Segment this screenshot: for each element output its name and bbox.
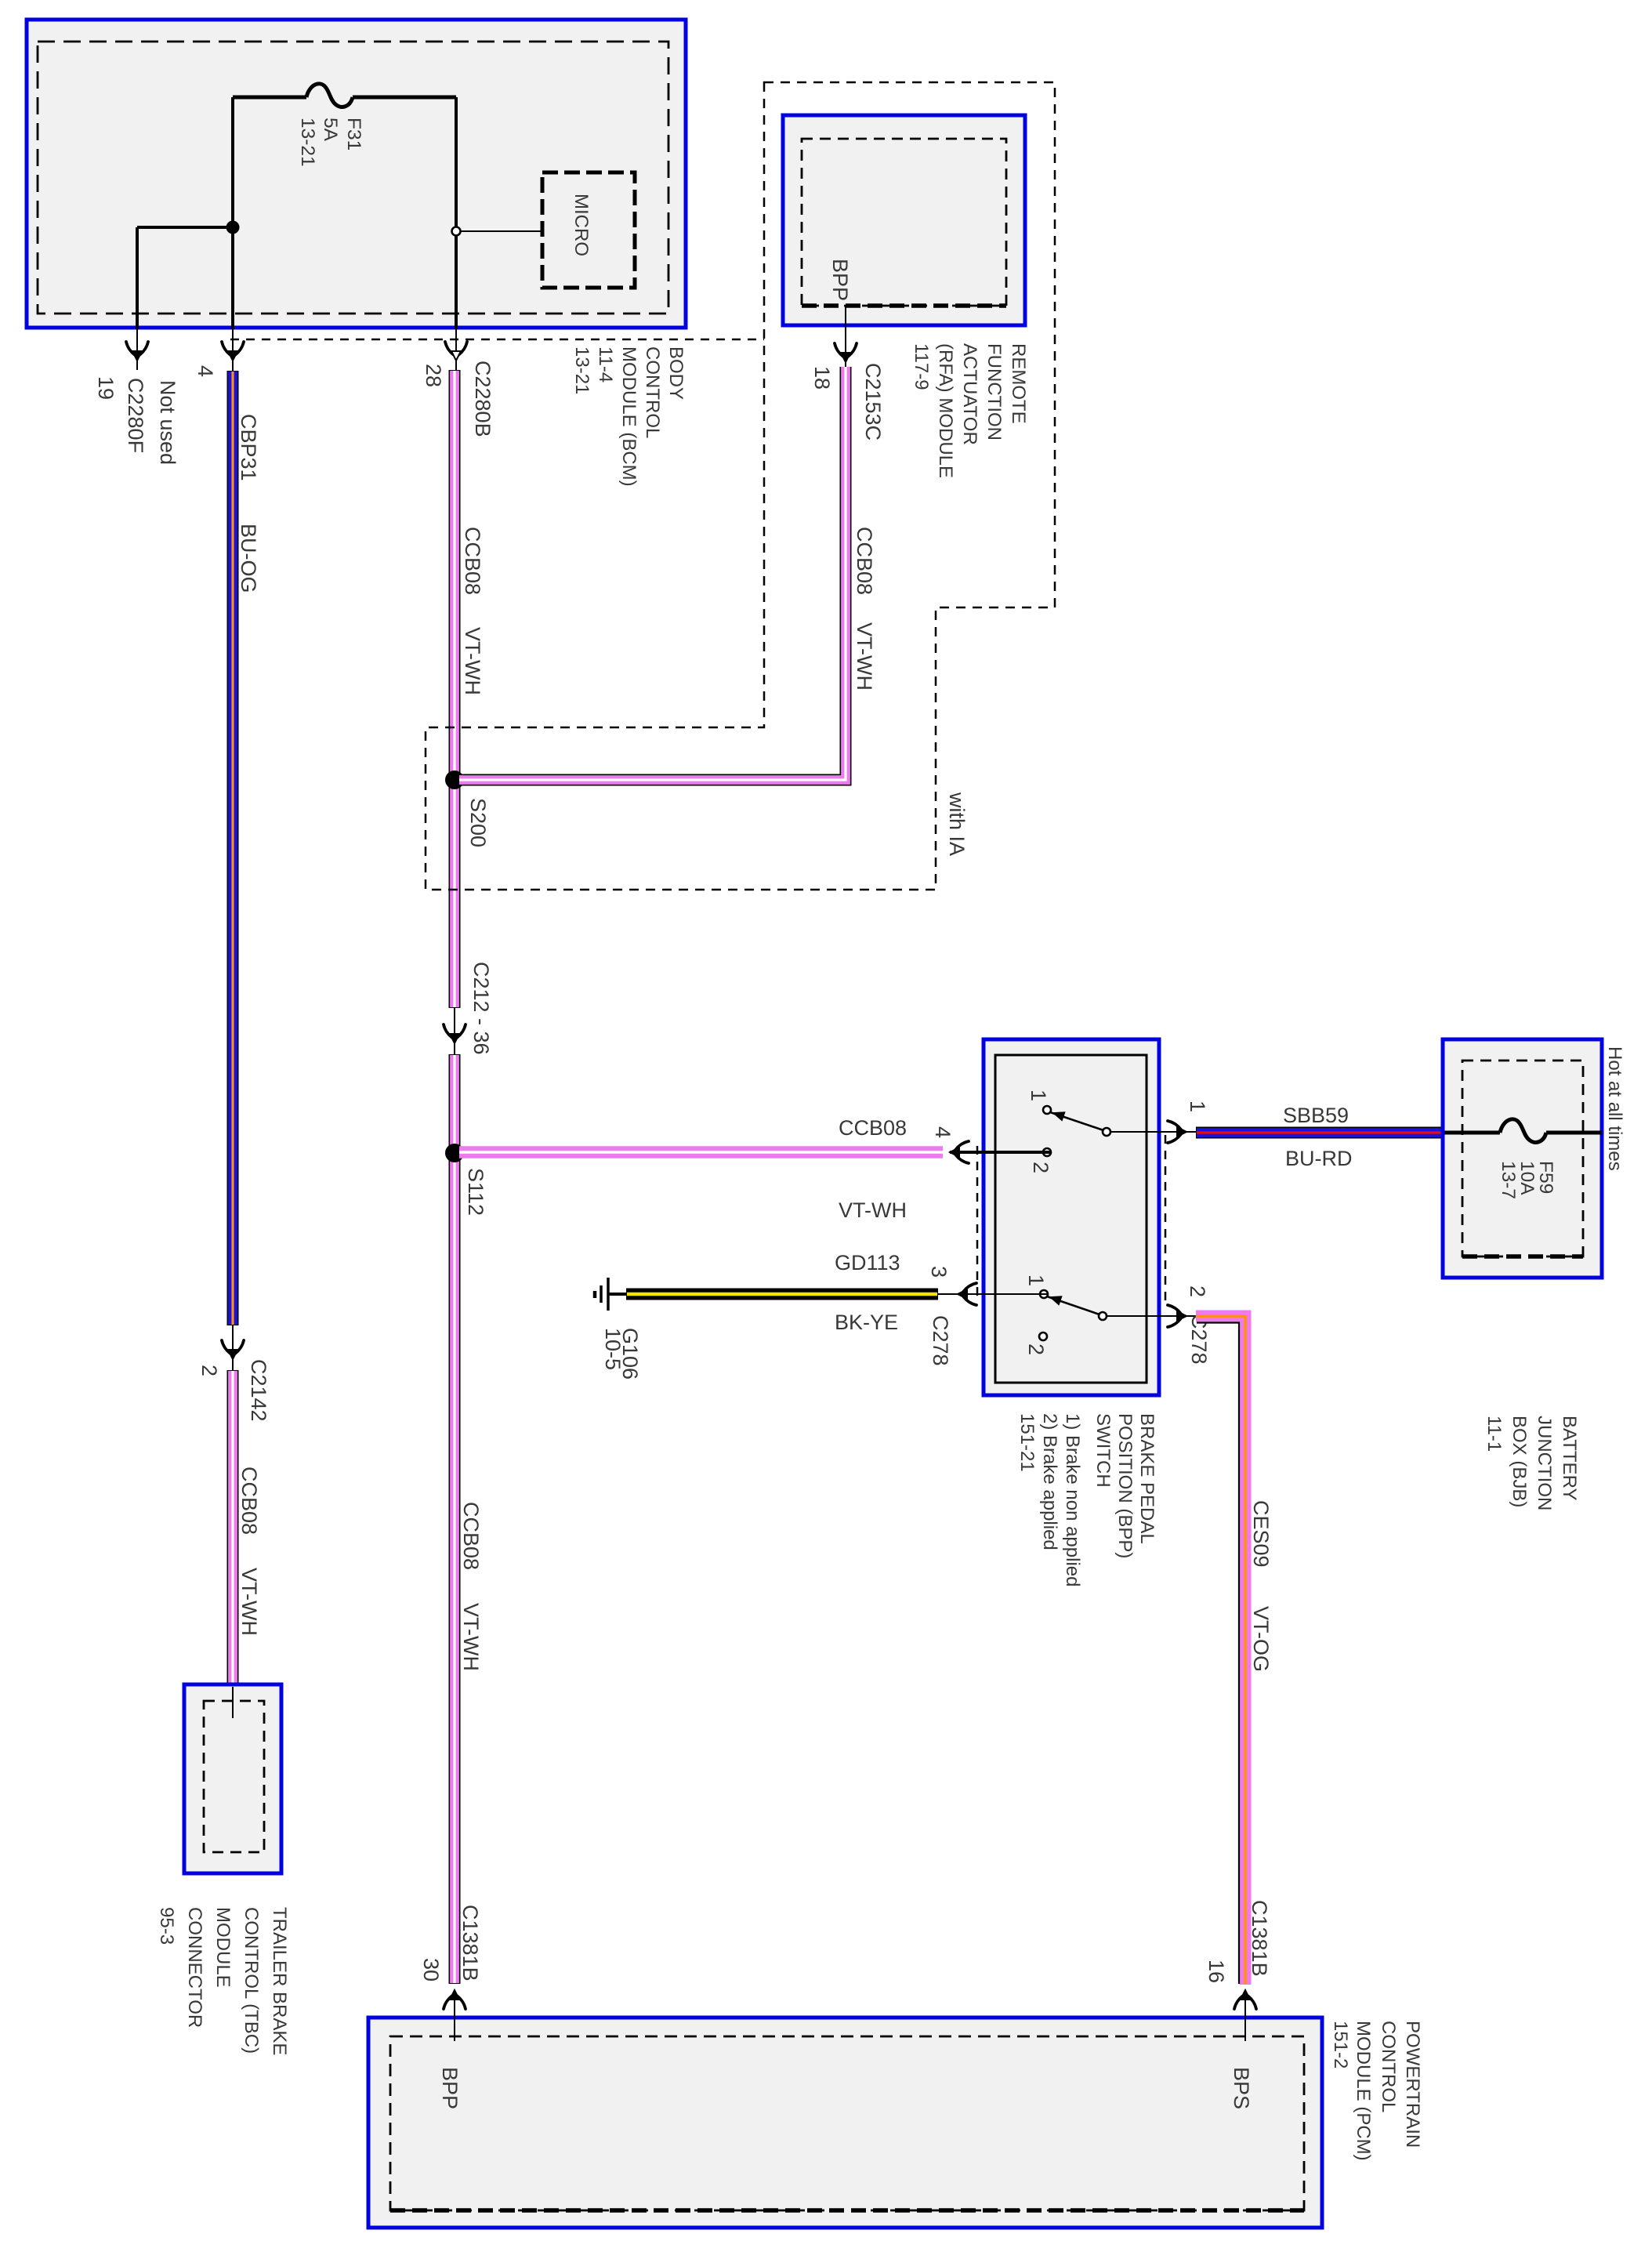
wire to MICRO	[460, 230, 542, 232]
svg-text:CCB08: CCB08	[853, 527, 876, 595]
svg-text:4: 4	[931, 1126, 955, 1138]
MICRO block inside BCM	[542, 172, 635, 288]
svg-text:MODULE (PCM): MODULE (PCM)	[1353, 2021, 1374, 2161]
PCM inner dashed outline	[390, 2036, 1304, 2210]
svg-text:11-4: 11-4	[595, 346, 616, 383]
BCM pin 19 connector arrow C2280F	[136, 329, 138, 370]
svg-text:CONTROL (TBC): CONTROL (TBC)	[241, 1907, 262, 2054]
svg-text:4: 4	[194, 365, 217, 377]
svg-text:1: 1	[1027, 1090, 1050, 1101]
svg-text:Not used: Not used	[156, 380, 179, 465]
wire CBP31 BU-OG from BCM pin 4	[227, 371, 239, 1325]
svg-text:VT-WH: VT-WH	[839, 1198, 907, 1222]
dashed connector face line C2280 under BCM	[230, 339, 764, 341]
wire CCB08 VT-WH branch S112 to BPP pin 4	[459, 1146, 943, 1158]
junction node on pin4 leg	[226, 221, 240, 234]
switch unused contact 2 (lower)	[1039, 1332, 1047, 1340]
svg-text:REMOTE: REMOTE	[1008, 343, 1029, 424]
PCM bold connector-face dashed edge	[390, 2208, 1304, 2213]
svg-text:VT-WH: VT-WH	[853, 622, 876, 691]
svg-text:CCB08: CCB08	[839, 1116, 907, 1140]
svg-text:F59: F59	[1535, 1161, 1556, 1194]
svg-text:2) Brake applied: 2) Brake applied	[1039, 1413, 1060, 1550]
svg-text:BPP: BPP	[828, 259, 852, 301]
svg-text:13-21: 13-21	[297, 118, 318, 167]
BCM pin 28 connector arrow C2280B	[455, 329, 457, 370]
dashed connector face C278 (left)	[976, 1146, 979, 1300]
svg-text:(RFA) MODULE: (RFA) MODULE	[935, 343, 956, 478]
BCM internal wire pin 4 leg	[231, 97, 234, 329]
svg-text:BU-RD: BU-RD	[1285, 1147, 1353, 1170]
svg-text:CCB08: CCB08	[237, 1467, 261, 1535]
svg-text:MICRO: MICRO	[571, 194, 592, 256]
svg-text:2: 2	[1029, 1162, 1052, 1173]
svg-text:CONTROL: CONTROL	[1378, 2021, 1399, 2112]
branch to pin 19 (not used)	[137, 226, 233, 229]
BCM pin 4 connector arrow	[232, 329, 234, 371]
svg-text:VT-WH: VT-WH	[461, 627, 484, 695]
svg-text:CONTROL: CONTROL	[642, 346, 663, 438]
module box: POWERTRAIN CONTROL MODULE (PCM)	[368, 2018, 1322, 2228]
TBC internal stub	[232, 1687, 234, 1718]
svg-text:ACTUATOR: ACTUATOR	[959, 343, 980, 445]
BPP pin 3 lead and arrow	[938, 1293, 1048, 1295]
svg-text:C2280F: C2280F	[124, 378, 147, 453]
wire CCB08 VT-WH to TBC connector	[227, 1370, 239, 1687]
switch alternate contact 2 (upper)	[1043, 1148, 1051, 1156]
svg-text:BRAKE PEDAL: BRAKE PEDAL	[1136, 1413, 1157, 1544]
svg-text:VT-WH: VT-WH	[237, 1568, 261, 1636]
svg-text:TRAILER BRAKE: TRAILER BRAKE	[269, 1907, 290, 2055]
inline connector C2142 pin 2	[232, 1325, 234, 1370]
svg-text:1: 1	[1186, 1100, 1209, 1112]
svg-text:28: 28	[422, 364, 445, 387]
svg-text:MODULE (BCM): MODULE (BCM)	[618, 346, 639, 487]
svg-text:C2142: C2142	[247, 1359, 270, 1422]
BPP pin 2 lead and arrow	[1107, 1315, 1196, 1317]
fuse F59 10A (BJB internal)	[1444, 1131, 1500, 1135]
svg-text:BK-YE: BK-YE	[835, 1311, 898, 1334]
svg-text:151-2: 151-2	[1330, 2021, 1351, 2069]
switch pole 1 (lower)	[1040, 1290, 1048, 1298]
svg-text:S200: S200	[466, 798, 490, 847]
dashed connector face C278 (right)	[1165, 1135, 1167, 1307]
svg-text:S112: S112	[464, 1168, 487, 1216]
svg-text:13-21: 13-21	[571, 346, 592, 394]
svg-text:F31: F31	[343, 118, 364, 150]
module box: BODY CONTROL MODULE (BCM)	[27, 20, 686, 328]
svg-text:151-21: 151-21	[1016, 1413, 1038, 1472]
svg-text:with IA: with IA	[945, 792, 969, 856]
svg-text:CES09: CES09	[1249, 1500, 1273, 1568]
svg-text:C212 - 36: C212 - 36	[469, 962, 493, 1055]
splice S200	[445, 770, 464, 789]
BCM internal wire pin 28 leg	[455, 97, 458, 329]
svg-text:BOX (BJB): BOX (BJB)	[1509, 1416, 1530, 1507]
inline connector C212 - 36	[454, 1008, 455, 1054]
svg-text:19: 19	[94, 376, 118, 400]
svg-text:95-3: 95-3	[156, 1907, 177, 1945]
svg-text:MODULE: MODULE	[212, 1907, 234, 1988]
svg-text:CONNECTOR: CONNECTOR	[184, 1907, 205, 2028]
svg-text:C1381B: C1381B	[1248, 1900, 1271, 1977]
RFA inner dashed outline	[802, 139, 1006, 306]
svg-text:JUNCTION: JUNCTION	[1534, 1416, 1555, 1510]
svg-text:BODY: BODY	[665, 346, 687, 400]
svg-text:3: 3	[927, 1266, 951, 1278]
splice S112	[445, 1144, 464, 1162]
svg-text:18: 18	[810, 366, 834, 390]
wire CCB08 VT-WH branch S200 to RFA pin 18	[459, 367, 846, 780]
svg-text:BU-OG: BU-OG	[237, 524, 260, 593]
svg-text:2: 2	[1186, 1285, 1209, 1297]
wire CCB08 VT-WH continues to PCM pin 30	[449, 1054, 461, 1984]
svg-text:16: 16	[1205, 1960, 1228, 1983]
svg-text:POSITION (BPP): POSITION (BPP)	[1114, 1413, 1136, 1558]
module box: REMOTE FUNCTION ACTUATOR (RFA) MODULE	[783, 115, 1025, 325]
svg-text:2: 2	[1024, 1343, 1048, 1355]
svg-text:C2153C: C2153C	[861, 363, 885, 441]
wire GD113 BK-YE from BPP pin 3 to ground	[626, 1289, 938, 1300]
TBC inner dashed outline	[204, 1701, 264, 1852]
svg-text:BPS: BPS	[1230, 2067, 1253, 2109]
BJB inner dashed outline	[1462, 1061, 1583, 1256]
module box: BRAKE PEDAL POSITION (BPP) SWITCH	[984, 1039, 1159, 1395]
svg-text:10A: 10A	[1516, 1161, 1538, 1195]
svg-text:CCB08: CCB08	[459, 1502, 483, 1570]
ground G106	[608, 1293, 626, 1296]
svg-text:C1381B: C1381B	[458, 1905, 482, 1982]
svg-text:30: 30	[419, 1958, 443, 1982]
BJB bold connector-face dashed edge	[1462, 1254, 1583, 1259]
svg-text:FUNCTION: FUNCTION	[984, 343, 1005, 441]
switch pole 1 (upper)	[1043, 1106, 1051, 1114]
BPP switch inner case	[995, 1055, 1147, 1383]
dashed option region: with IA	[426, 82, 1055, 890]
svg-text:SBB59: SBB59	[1283, 1104, 1349, 1127]
module box: TRAILER BRAKE CONTROL (TBC) MODULE CONNECTOR	[184, 1684, 281, 1873]
svg-text:10-5: 10-5	[601, 1328, 625, 1370]
wire SBB59 BU-RD from BPP pin 1 to BJB	[1196, 1127, 1444, 1139]
svg-text:117-9: 117-9	[911, 343, 932, 390]
switch contact to pin 2 (lower)	[1099, 1312, 1107, 1320]
svg-text:CBP31: CBP31	[237, 414, 260, 481]
svg-text:VT-OG: VT-OG	[1249, 1606, 1273, 1672]
RFA bold connector-face dashed edge	[802, 303, 1006, 308]
BPP pin 4 lead (thick) and arrow	[950, 1151, 1051, 1154]
PCM pin 30 connector arrow C1381B	[454, 1991, 455, 2041]
svg-text:11-1: 11-1	[1484, 1416, 1505, 1452]
svg-text:1) Brake non applied: 1) Brake non applied	[1062, 1413, 1083, 1586]
svg-text:POWERTRAIN: POWERTRAIN	[1402, 2021, 1423, 2148]
svg-text:C278: C278	[929, 1315, 952, 1366]
BCM inner dashed outline	[38, 42, 668, 314]
PCM pin 16 connector arrow C1381B	[1244, 1991, 1246, 2041]
BPP pin 1 lead and arrow	[1110, 1131, 1196, 1133]
svg-text:5A: 5A	[320, 118, 341, 142]
wire CES09 VT-OG from BPP pin 2 to PCM pin 16	[1196, 1316, 1245, 1985]
svg-text:C2280B: C2280B	[471, 361, 495, 437]
module box: BATTERY JUNCTION BOX (BJB)	[1443, 1039, 1602, 1278]
svg-text:SWITCH: SWITCH	[1092, 1413, 1114, 1488]
wire CCB08 VT-WH from BCM pin 28 (upper segment)	[449, 370, 461, 1008]
svg-text:GD113: GD113	[835, 1251, 900, 1274]
fuse F31 5A (BCM internal)	[233, 96, 306, 100]
RFA pin 18 connector arrow C2153C	[845, 306, 846, 367]
MICRO tap node	[452, 227, 461, 236]
svg-text:CCB08: CCB08	[461, 527, 484, 595]
svg-text:BATTERY: BATTERY	[1559, 1416, 1580, 1500]
svg-text:13-7: 13-7	[1498, 1161, 1519, 1199]
svg-text:2: 2	[197, 1365, 221, 1376]
svg-text:BPP: BPP	[438, 2067, 462, 2109]
svg-text:VT-WH: VT-WH	[459, 1603, 483, 1671]
svg-text:1: 1	[1024, 1274, 1048, 1286]
switch contact to pin 1	[1103, 1128, 1110, 1136]
svg-text:Hot at all times: Hot at all times	[1604, 1046, 1625, 1171]
